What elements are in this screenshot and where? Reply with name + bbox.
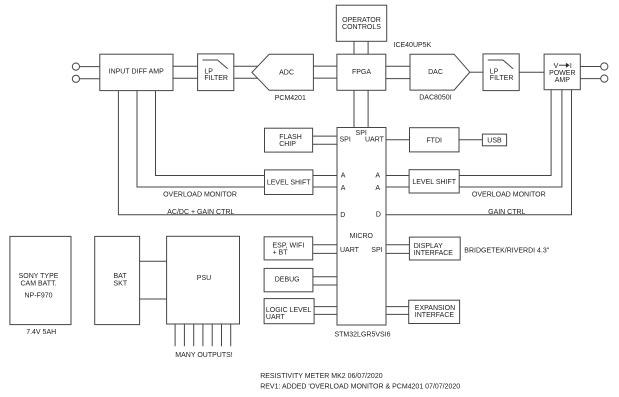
wire MICRO to EXPANSION INTERFACE (top): [386, 306, 409, 308]
svg-text:A: A: [375, 173, 380, 180]
svg-text:ICE40UP5K: ICE40UP5K: [394, 42, 432, 49]
svg-text:USB: USB: [487, 137, 502, 144]
wire MICRO A to LEVEL SHIFT right (top): [386, 175, 409, 177]
wire ADC to FPGA (bottom): [313, 77, 337, 79]
svg-text:SPI: SPI: [340, 137, 351, 144]
wire MICRO SPI to DISPLAY INTERFACE (top): [386, 244, 409, 246]
svg-text:V: V: [554, 63, 559, 70]
svg-text:FPGA: FPGA: [352, 69, 371, 76]
block INPUT DIFF AMP: [100, 54, 173, 90]
wire DEBUG to MICRO (bottom): [313, 284, 337, 286]
svg-text:DAC8050I: DAC8050I: [419, 95, 451, 102]
svg-text:FTDI: FTDI: [426, 137, 442, 144]
block DAC (DAC8050I): [410, 54, 470, 90]
svg-text:A: A: [341, 173, 346, 180]
svg-text:INPUT DIFF AMP: INPUT DIFF AMP: [109, 69, 164, 76]
svg-text:LEVEL SHIFT: LEVEL SHIFT: [267, 180, 311, 187]
wire POWER AMP to output J4 (bottom): [580, 78, 600, 80]
svg-text:BRIDGETEK/RIVERDI 4.3": BRIDGETEK/RIVERDI 4.3": [464, 247, 549, 254]
wire FPGA to MICRO SPI (left): [353, 90, 355, 127]
svg-text:MICRO: MICRO: [350, 233, 374, 240]
wire LOGIC LEVEL UART to MICRO (top): [314, 306, 337, 308]
wire INPUT DIFF AMP to LP FILTER 1 (top): [173, 65, 198, 67]
svg-text:STM32LGR5VSI6: STM32LGR5VSI6: [334, 331, 390, 338]
svg-text:REV1: ADDED 'OVERLOAD MONITOR: REV1: ADDED 'OVERLOAD MONITOR & PCM4201 …: [260, 383, 460, 390]
svg-text:RESISTIVITY METER MK2 06/07/20: RESISTIVITY METER MK2 06/07/2020: [260, 373, 383, 380]
wire BAT SKT to PSU (bottom): [140, 298, 167, 300]
svg-text:D: D: [340, 212, 345, 219]
output terminal J4: [601, 75, 608, 82]
block SONY TYPE CAM BATT NP-F970: [10, 236, 71, 324]
wire PSU output 5: [211, 324, 213, 346]
block ADC (PCM4201): [252, 54, 314, 90]
wire input J1 to INPUT DIFF AMP (top): [80, 66, 100, 68]
svg-text:CONTROLS: CONTROLS: [342, 24, 381, 31]
wire LP FILTER 2 to POWER AMP: [519, 71, 544, 73]
wire input J2 to INPUT DIFF AMP (bottom): [80, 78, 100, 80]
svg-text:OPERATOR: OPERATOR: [342, 17, 381, 24]
wire DEBUG to MICRO (top): [313, 276, 337, 278]
svg-text:MANY OUTPUTS!: MANY OUTPUTS!: [175, 352, 232, 359]
block LP FILTER 2: [483, 54, 519, 91]
block LOGIC LEVEL UART: [264, 299, 314, 324]
block FLASH CHIP: [265, 128, 313, 152]
wire FPGA to DAC (top): [386, 65, 410, 67]
block DEBUG: [264, 268, 313, 291]
wire MICRO UART to FTDI: [386, 139, 410, 141]
wire FLASH CHIP to MICRO SPI (top): [313, 135, 337, 137]
svg-text:UART: UART: [340, 247, 360, 254]
svg-text:OVERLOAD MONITOR: OVERLOAD MONITOR: [163, 191, 237, 198]
wire MICRO A to LEVEL SHIFT right (bottom): [386, 186, 409, 188]
svg-text:FILTER: FILTER: [490, 75, 514, 82]
block FPGA: [337, 54, 386, 90]
svg-text:INTERFACE: INTERFACE: [415, 312, 455, 319]
wire FLASH CHIP to MICRO SPI (bottom): [313, 143, 337, 145]
svg-text:POWER: POWER: [549, 70, 575, 77]
svg-text:DISPLAY: DISPLAY: [414, 243, 443, 250]
output terminal J3: [601, 63, 608, 70]
wire LEVEL SHIFT right OVERLOAD MONITOR to POWER AMP sense 2: [459, 90, 562, 187]
wire MICRO SPI to DISPLAY INTERFACE (bottom): [386, 252, 409, 254]
wire OVERLOAD MONITOR left to LEVEL SHIFT left A2: [137, 91, 265, 187]
svg-text:A: A: [375, 185, 380, 192]
svg-text:FILTER: FILTER: [204, 75, 228, 82]
block ESP WIFI + BT: [264, 237, 313, 260]
svg-text:UART: UART: [365, 137, 385, 144]
svg-text:ADC: ADC: [279, 70, 294, 77]
svg-text:LOGIC LEVEL: LOGIC LEVEL: [266, 307, 312, 314]
svg-text:D: D: [376, 212, 381, 219]
wire LEVEL SHIFT left to MICRO A (top): [313, 175, 337, 177]
wire DAC to LP FILTER 2: [470, 71, 483, 73]
svg-text:7.4V 5AH: 7.4V 5AH: [26, 329, 56, 336]
wire PSU output 4: [202, 324, 204, 346]
wire OPERATOR CONTROLS to FPGA (right): [367, 41, 369, 54]
wire ADC to FPGA (top): [313, 65, 337, 67]
block USB: [482, 134, 506, 146]
svg-text:AC/DC + GAIN CTRL: AC/DC + GAIN CTRL: [167, 209, 234, 216]
block LP FILTER 1: [198, 54, 234, 91]
wire MICRO to EXPANSION INTERFACE (bottom): [386, 313, 409, 315]
svg-text:AMP: AMP: [555, 77, 571, 84]
svg-text:I: I: [570, 63, 572, 70]
block BAT SKT: [95, 236, 140, 324]
block OPERATOR CONTROLS: [336, 5, 386, 41]
wire PSU output 6: [221, 324, 223, 346]
wire PSU output 7: [230, 324, 232, 346]
wire FPGA to MICRO SPI (right): [367, 90, 369, 127]
svg-text:ESP, WIFI: ESP, WIFI: [273, 242, 305, 249]
svg-text:INTERFACE: INTERFACE: [414, 250, 454, 257]
input terminal J2: [72, 75, 79, 82]
wire POWER AMP to output J3 (top): [580, 66, 600, 68]
wire BAT SKT to PSU (top): [140, 260, 167, 262]
wire LP FILTER 1 to ADC (top): [234, 65, 258, 67]
wire LP FILTER 1 to ADC (bottom): [234, 77, 258, 79]
svg-text:OVERLOAD MONITOR: OVERLOAD MONITOR: [472, 191, 546, 198]
wire OPERATOR CONTROLS to FPGA (left): [353, 41, 355, 54]
svg-text:FLASH: FLASH: [279, 134, 302, 141]
svg-text:CAM BATT.: CAM BATT.: [20, 281, 56, 288]
svg-text:DEBUG: DEBUG: [275, 277, 300, 284]
wire GAIN CTRL from MICRO D to POWER AMP: [386, 90, 572, 215]
svg-text:SONY TYPE: SONY TYPE: [19, 273, 59, 280]
svg-text:SKT: SKT: [114, 281, 128, 288]
svg-text:BAT: BAT: [114, 273, 128, 280]
block MICRO (STM32LGR5VSI6): [337, 128, 386, 326]
wire PSU output 2: [183, 324, 185, 346]
svg-text:SPI: SPI: [371, 247, 382, 254]
block PSU: [167, 236, 240, 324]
wire ESP WIFI BT to MICRO UART (top): [313, 244, 337, 246]
svg-text:CHIP: CHIP: [279, 141, 296, 148]
wire LOGIC LEVEL UART to MICRO (bottom): [314, 313, 337, 315]
block LEVEL SHIFT right: [409, 170, 459, 193]
svg-text:PCM4201: PCM4201: [275, 95, 306, 102]
svg-text:UART: UART: [266, 314, 286, 321]
block V-to-I POWER AMP: [544, 54, 580, 90]
wire FTDI to USB: [459, 139, 482, 141]
input terminal J1: [72, 63, 79, 70]
wire ESP WIFI BT to MICRO UART (bottom): [313, 252, 337, 254]
block DISPLAY INTERFACE: [409, 237, 460, 260]
svg-text:NP-F970: NP-F970: [24, 292, 52, 299]
wire LEVEL SHIFT left to MICRO A (bottom): [313, 186, 337, 188]
block FTDI: [410, 128, 460, 152]
svg-text:PSU: PSU: [197, 275, 211, 282]
svg-text:+ BT: + BT: [273, 249, 289, 256]
wire LEVEL SHIFT right to POWER AMP sense 1: [459, 90, 551, 176]
block LEVEL SHIFT left: [265, 170, 313, 195]
svg-text:DAC: DAC: [428, 69, 443, 76]
svg-text:A: A: [341, 185, 346, 192]
wire FPGA to DAC (bottom): [386, 78, 410, 80]
wire PSU output 1: [174, 324, 176, 346]
svg-text:LEVEL SHIFT: LEVEL SHIFT: [412, 179, 456, 186]
wire INPUT DIFF AMP to LP FILTER 1 (bottom): [173, 77, 198, 79]
block EXPANSION INTERFACE: [409, 300, 460, 323]
wire AC/DC + GAIN CTRL from INPUT DIFF AMP to MICRO D: [118, 91, 337, 215]
svg-text:GAIN CTRL: GAIN CTRL: [488, 209, 525, 216]
wire PSU output 3: [193, 324, 195, 346]
wire INPUT DIFF AMP overload sense to LEVEL SHIFT left A1: [156, 91, 265, 176]
